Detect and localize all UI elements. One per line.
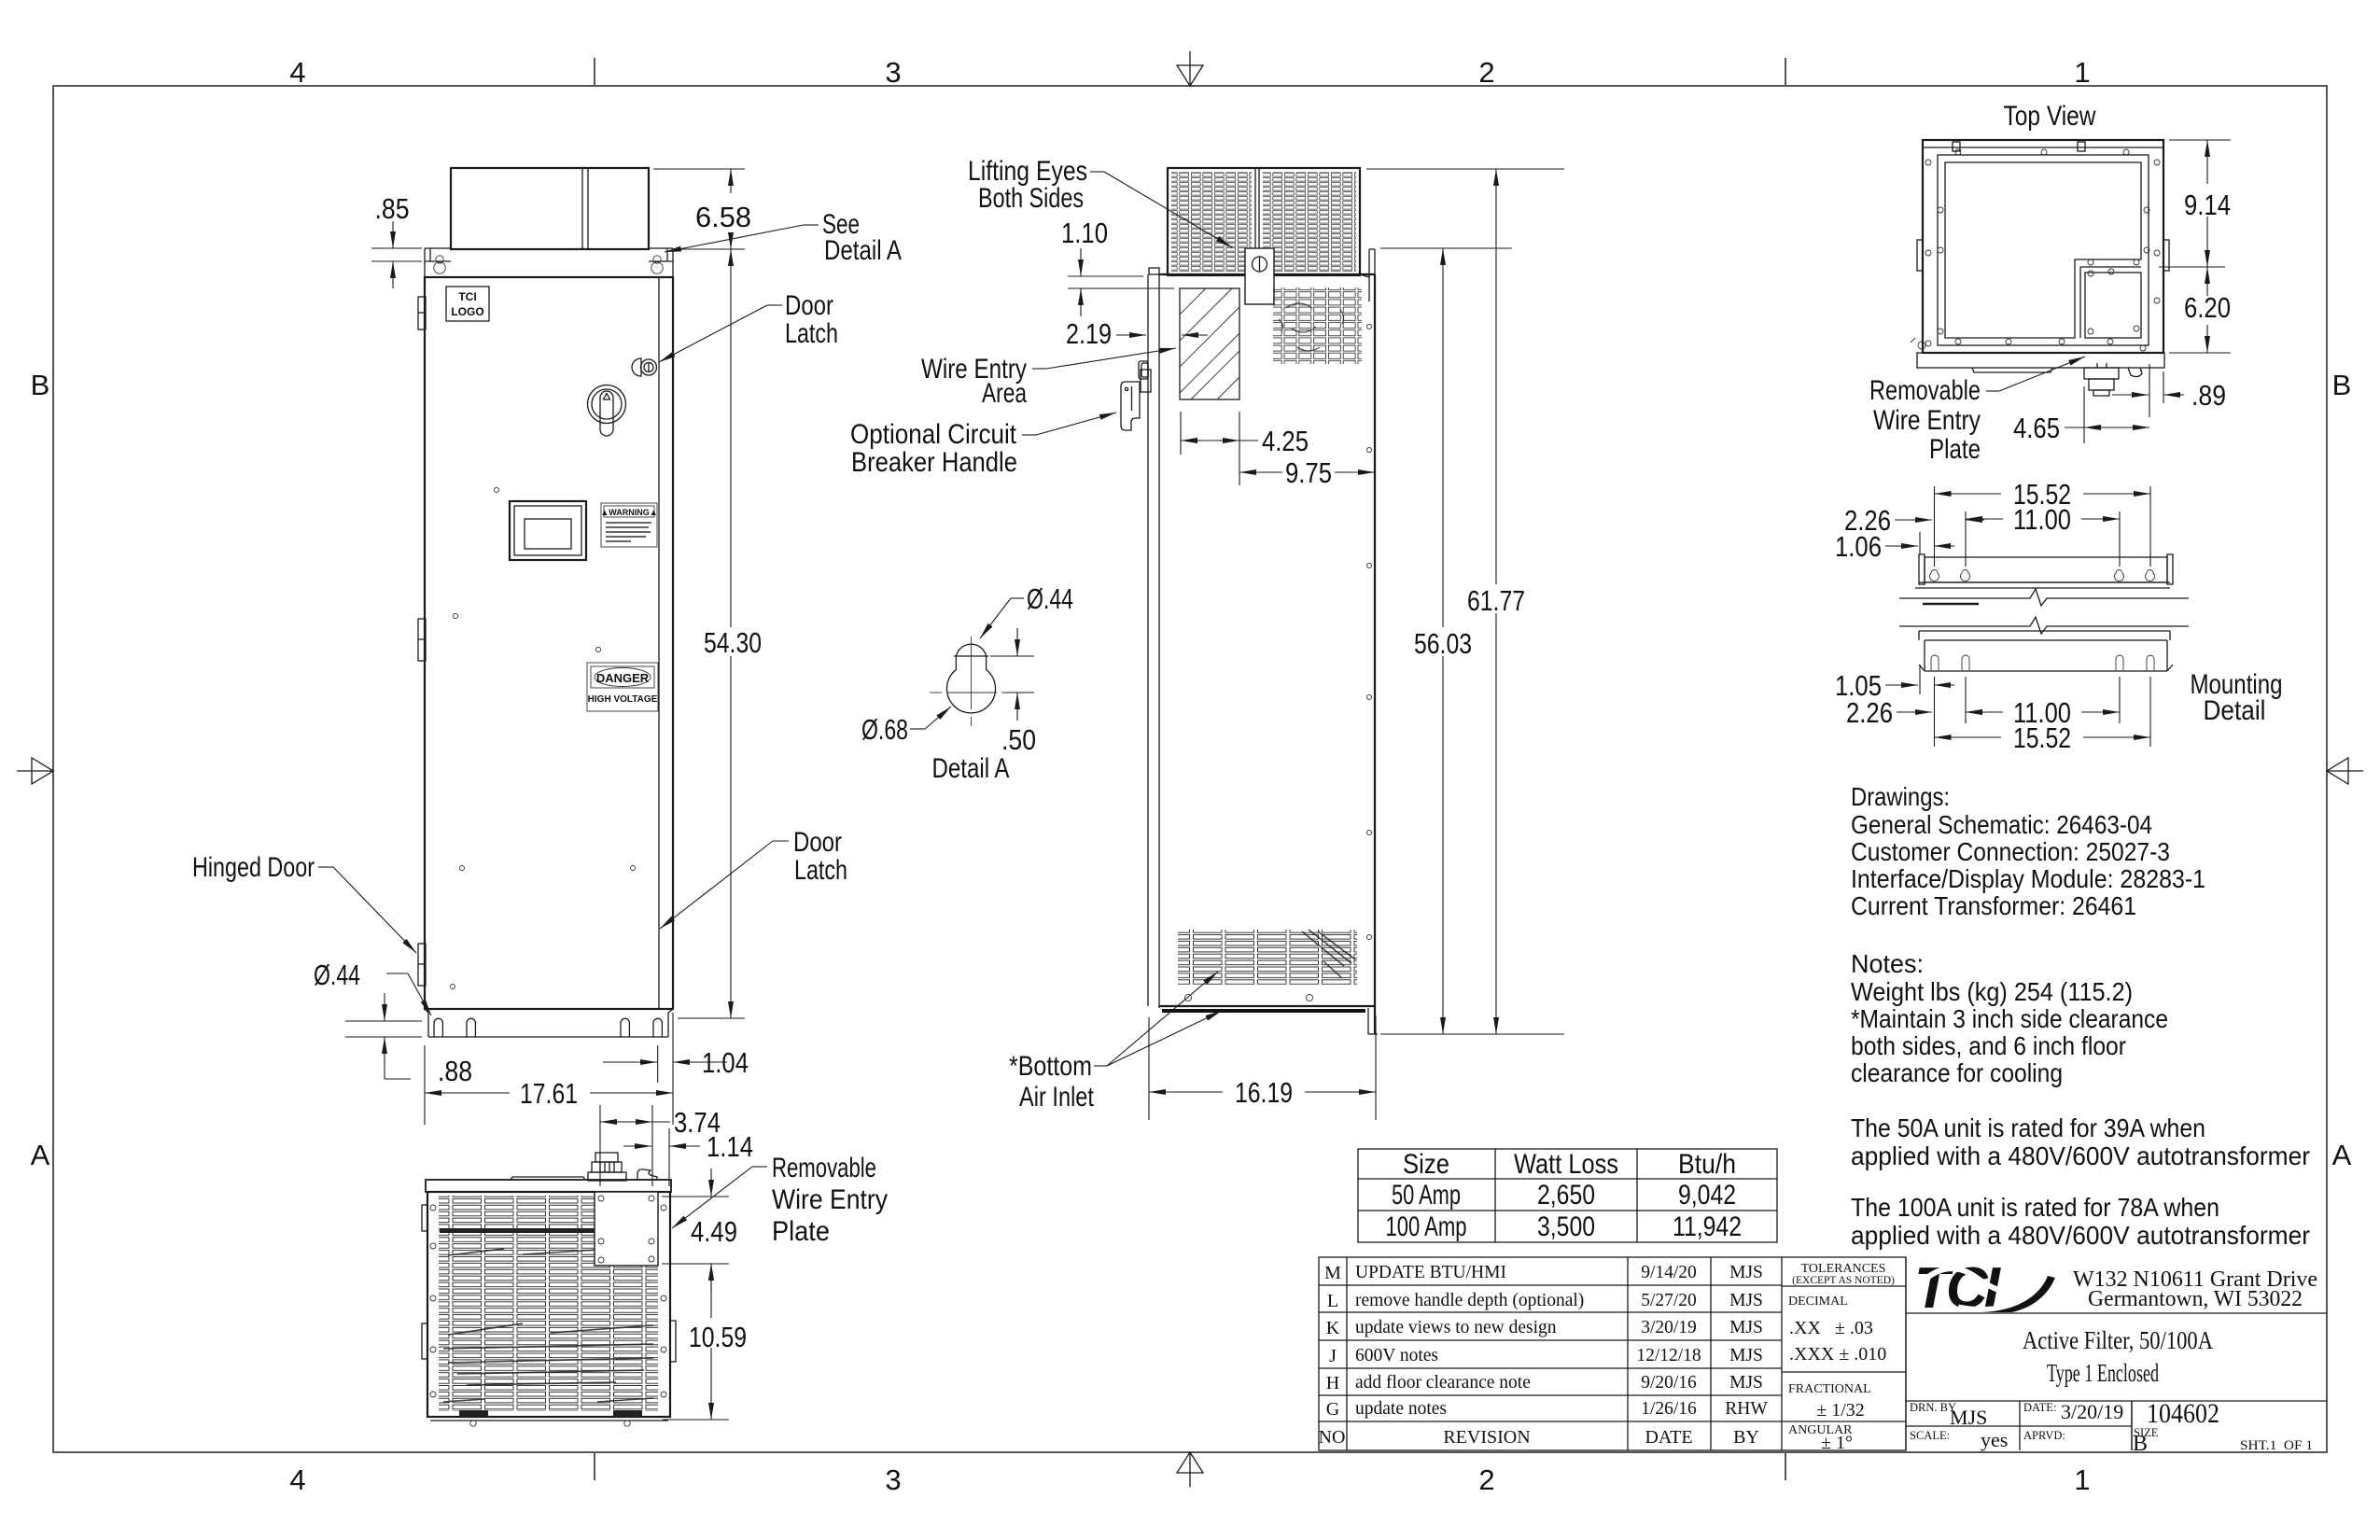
SECTION: front view	[418, 168, 673, 1037]
dim .88	[345, 993, 422, 1079]
bottom view base edge	[427, 1417, 670, 1421]
dim 15.52 lower	[1935, 677, 2151, 747]
plenum divider	[581, 168, 583, 249]
svg-text:3,500: 3,500	[1537, 1211, 1595, 1242]
svg-text:Door: Door	[793, 827, 842, 858]
svg-text:Customer Connection: 25027-3: Customer Connection: 25027-3	[1851, 837, 2170, 866]
top view latch detail bottom left	[1911, 338, 1925, 349]
svg-text:DANGER: DANGER	[596, 671, 650, 685]
bottom view foot pad left	[459, 1410, 488, 1426]
bottom view right hinge tab	[670, 1321, 676, 1362]
revision row L	[1327, 1291, 1763, 1311]
bottom view foot pad right	[613, 1410, 642, 1426]
svg-text:Optional Circuit: Optional Circuit	[850, 419, 1017, 450]
top view front corner clips	[1953, 142, 2085, 151]
revision table grid	[1319, 1257, 1906, 1450]
tolerances box	[1782, 1262, 1906, 1453]
dim 3.74	[600, 1105, 670, 1186]
side view top cap line	[1159, 273, 1375, 275]
svg-text:applied with a 480V/600V autot: applied with a 480V/600V autotransformer	[1851, 1141, 2310, 1170]
leader bottom air inlet	[1094, 972, 1222, 1066]
danger high voltage label	[587, 663, 658, 711]
SECTION: bottom view dimensions	[600, 1105, 888, 1420]
svg-text:Ø.44: Ø.44	[1027, 582, 1073, 615]
svg-text:9.14: 9.14	[2184, 189, 2231, 221]
svg-text:9/14/20: 9/14/20	[1641, 1263, 1697, 1282]
svg-text:Detail: Detail	[2204, 695, 2266, 726]
svg-text:Plate: Plate	[1929, 434, 1981, 465]
dim 1.06 upper	[1885, 532, 1954, 554]
SECTION: bottom view	[422, 1153, 676, 1426]
HMI display	[510, 501, 586, 560]
wire entry area hatched	[1180, 288, 1239, 399]
svg-text:600V notes: 600V notes	[1355, 1346, 1438, 1365]
svg-text:1: 1	[2074, 56, 2090, 89]
svg-text:5/27/20: 5/27/20	[1641, 1291, 1697, 1310]
dim 11.00 upper	[1966, 511, 2120, 567]
center flag bottom	[1177, 1452, 1203, 1487]
bottom grille diagonal shading	[1302, 930, 1355, 978]
svg-text:HIGH VOLTAGE: HIGH VOLTAGE	[588, 694, 658, 705]
bottom view lifting hook tab	[637, 1169, 657, 1181]
svg-text:NO: NO	[1319, 1427, 1346, 1448]
svg-text:104602: 104602	[2147, 1398, 2219, 1429]
revision row M	[1324, 1263, 1763, 1283]
top view door panel	[1945, 162, 2141, 338]
svg-text:B: B	[2332, 369, 2352, 401]
dim diameter .44 detail	[980, 598, 1024, 638]
svg-text:Notes:: Notes:	[1851, 949, 1924, 978]
dim .50	[990, 628, 1034, 721]
svg-text:50 Amp: 50 Amp	[1392, 1180, 1461, 1211]
keyhole slot left on flange	[434, 256, 445, 273]
svg-text:Removable: Removable	[772, 1153, 876, 1183]
side view rear edge	[1374, 274, 1376, 1008]
svg-text:Interface/Display Module: 2828: Interface/Display Module: 28283-1	[1851, 864, 2205, 893]
keyhole slot right on flange	[651, 256, 663, 273]
svg-text:UPDATE BTU/HMI: UPDATE BTU/HMI	[1355, 1263, 1506, 1282]
fan grille swirl shading	[1279, 303, 1344, 351]
bottom view conduit connector	[588, 1153, 626, 1181]
svg-text:3/20/19: 3/20/19	[2061, 1400, 2123, 1423]
svg-text:G: G	[1326, 1399, 1339, 1420]
svg-text:both sides, and 6 inch floor: both sides, and 6 inch floor	[1851, 1031, 2126, 1060]
dim .85	[371, 221, 422, 288]
top view right tab	[2163, 240, 2169, 271]
leader optional circuit breaker handle	[1022, 413, 1116, 435]
SECTION: top view dimensions	[1869, 140, 2231, 465]
side view bottom air inlet grille	[1178, 930, 1357, 985]
svg-text:FRACTIONAL: FRACTIONAL	[1788, 1382, 1871, 1396]
TCI logo	[1905, 1256, 2055, 1321]
dim 9.75	[1239, 471, 1375, 473]
bottom view left hinge tab	[422, 1205, 427, 1231]
dim 61.77	[1366, 169, 1564, 1034]
dim 4.49	[662, 1169, 729, 1292]
dim 10.59	[663, 1264, 729, 1420]
svg-text:± 1/32: ± 1/32	[1816, 1400, 1865, 1421]
exhaust grille mesh left	[1171, 172, 1252, 272]
svg-text:remove handle depth (optional): remove handle depth (optional)	[1355, 1291, 1584, 1310]
enclosure body front	[425, 277, 673, 1009]
svg-text:update views to new design: update views to new design	[1355, 1318, 1557, 1337]
svg-text:4: 4	[289, 1463, 305, 1496]
svg-text:.88: .88	[438, 1055, 472, 1087]
svg-text:DECIMAL: DECIMAL	[1788, 1295, 1848, 1309]
center flag right	[2327, 758, 2363, 784]
dim 6.58	[653, 169, 745, 249]
door edge line right	[658, 277, 660, 1009]
svg-text:1/26/16: 1/26/16	[1641, 1399, 1697, 1419]
leader door latch bottom	[660, 841, 789, 929]
svg-text:A: A	[31, 1139, 50, 1171]
svg-text:J: J	[1329, 1346, 1337, 1366]
svg-text:Latch: Latch	[794, 855, 847, 886]
dim 2.26 lower	[1897, 677, 1984, 747]
svg-text:update notes: update notes	[1355, 1399, 1447, 1419]
svg-text:4.25: 4.25	[1262, 425, 1309, 457]
svg-text:2: 2	[1478, 56, 1494, 89]
svg-text:MJS: MJS	[1950, 1406, 1987, 1429]
svg-text:SCALE:: SCALE:	[1910, 1429, 1950, 1442]
svg-text:.XX ± .03: .XX ± .03	[1789, 1318, 1873, 1338]
svg-text:9.75: 9.75	[1285, 456, 1332, 489]
upper keyhole slots	[1930, 570, 2155, 581]
svg-text:54.30: 54.30	[704, 626, 762, 659]
svg-text:applied with a 480V/600V autot: applied with a 480V/600V autotransformer	[1851, 1221, 2310, 1250]
svg-text:DATE:: DATE:	[2023, 1401, 2056, 1414]
svg-text:4: 4	[289, 56, 305, 89]
svg-text:L: L	[1327, 1291, 1338, 1311]
leader removable wire entry plate (top view)	[1986, 357, 2085, 391]
dim 1.04	[603, 1045, 727, 1083]
door latch side tab	[1139, 361, 1148, 379]
svg-text:10.59: 10.59	[689, 1321, 747, 1353]
leader wire entry area	[1032, 348, 1176, 369]
svg-text:1: 1	[2074, 1463, 2090, 1496]
SECTION: revision table and title block	[1319, 1256, 2327, 1456]
svg-text:RHW: RHW	[1725, 1399, 1768, 1419]
top view screws	[1925, 149, 2160, 351]
door latch top	[632, 358, 656, 376]
zone tick bottom 2/1	[1785, 1452, 1786, 1480]
top view outer inner line	[1923, 147, 2163, 148]
svg-text:DATE: DATE	[1645, 1427, 1692, 1448]
svg-text:.50: .50	[1001, 723, 1036, 756]
svg-text:17.61: 17.61	[520, 1077, 578, 1110]
svg-text:SHT.1 OF 1: SHT.1 OF 1	[2240, 1438, 2313, 1453]
svg-text:2.26: 2.26	[1846, 696, 1893, 729]
svg-text:3/20/19: 3/20/19	[1641, 1318, 1697, 1337]
svg-text:1.14: 1.14	[707, 1130, 753, 1163]
top view conduit	[2084, 363, 2119, 396]
svg-text:1.04: 1.04	[702, 1046, 749, 1079]
svg-text:The 100A unit is rated for 78A: The 100A unit is rated for 78A when	[1851, 1193, 2219, 1222]
dim 11.00 lower	[1966, 677, 2120, 723]
svg-text:Active Filter, 50/100A: Active Filter, 50/100A	[2023, 1326, 2213, 1354]
svg-text:Btu/h: Btu/h	[1678, 1149, 1736, 1180]
dim diameter .68 detail	[910, 707, 951, 729]
svg-text:Plate: Plate	[772, 1216, 830, 1247]
svg-text:Wire Entry: Wire Entry	[772, 1184, 888, 1215]
top view door handle bump	[1972, 368, 2052, 372]
dim 1.10	[1068, 248, 1174, 316]
revision header row	[1319, 1427, 1759, 1448]
svg-text:MJS: MJS	[1729, 1318, 1763, 1337]
disconnect switch handle	[588, 385, 626, 437]
dim 16.19	[1149, 1015, 1376, 1120]
dim 17.61	[425, 1013, 673, 1125]
center flag top	[1177, 51, 1203, 86]
svg-text:2: 2	[1478, 1463, 1494, 1496]
bottom view top cap	[426, 1177, 671, 1192]
SECTION: mounting detail	[1899, 554, 2283, 726]
mounting detail lower bar with break	[1899, 617, 2189, 671]
bottom view body	[427, 1192, 670, 1417]
svg-text:LOGO: LOGO	[451, 305, 483, 318]
leader hinged door	[318, 867, 416, 953]
detail A centerlines	[930, 637, 1012, 726]
svg-text:9/20/16: 9/20/16	[1641, 1373, 1697, 1393]
svg-text:3: 3	[885, 1463, 901, 1496]
SECTION: side view dimensions	[850, 156, 1564, 1120]
SECTION: top view	[1911, 101, 2169, 396]
top view L notch	[2080, 267, 2141, 338]
zone tick bottom 4/3	[594, 1452, 595, 1480]
svg-text:4.65: 4.65	[2013, 412, 2060, 444]
zone tick top 2/1	[1785, 58, 1786, 86]
svg-text:*Bottom: *Bottom	[1009, 1051, 1092, 1082]
rear fan grille (side view top)	[1273, 287, 1362, 364]
exhaust grille divider	[1255, 168, 1259, 275]
svg-text:Top View: Top View	[2004, 101, 2096, 132]
svg-text:B: B	[31, 369, 50, 401]
svg-text:clearance for cooling: clearance for cooling	[1851, 1058, 2063, 1087]
exhaust grille mesh right	[1263, 172, 1356, 272]
leader lifting eyes both sides	[1090, 172, 1232, 247]
base flange front	[425, 1009, 673, 1037]
dim 54.30	[678, 249, 745, 1018]
svg-text:± 1°: ± 1°	[1821, 1433, 1853, 1453]
svg-text:.89: .89	[2191, 379, 2226, 412]
svg-text:▲WARNING▲: ▲WARNING▲	[600, 508, 657, 517]
front view top plenum box	[451, 168, 649, 249]
top view outer flange	[1923, 140, 2163, 353]
grille fan shading	[443, 1249, 653, 1402]
side view exhaust grille box	[1168, 168, 1360, 275]
top view inner frame	[1938, 155, 2149, 345]
svg-text:3: 3	[885, 56, 901, 89]
svg-text:B: B	[2133, 1432, 2148, 1456]
svg-text:Germantown, WI 53022: Germantown, WI 53022	[2088, 1287, 2303, 1311]
foot slot 4	[653, 1018, 662, 1037]
svg-text:Area: Area	[982, 378, 1027, 409]
dim 2.26 upper	[1895, 519, 1984, 521]
foot slot 1	[434, 1018, 442, 1037]
svg-text:Ø.44: Ø.44	[314, 959, 360, 991]
svg-text:*Maintain 3 inch side clearanc: *Maintain 3 inch side clearance	[1851, 1004, 2168, 1033]
svg-text:Ø.68: Ø.68	[861, 713, 908, 746]
SECTION: detail A	[861, 582, 1073, 784]
svg-text:.XXX ± .010: .XXX ± .010	[1789, 1344, 1886, 1365]
revision row K	[1326, 1318, 1763, 1338]
dim 1.14	[623, 1128, 700, 1186]
svg-text:15.52: 15.52	[2013, 721, 2071, 754]
svg-text:Breaker Handle: Breaker Handle	[851, 447, 1017, 478]
bottom view air inlet grille	[439, 1196, 658, 1411]
side view bottom edge	[1159, 1006, 1378, 1034]
foot slot 2	[467, 1018, 475, 1037]
hinge middle	[418, 619, 426, 661]
removable wire entry plate (bottom view)	[595, 1192, 658, 1266]
svg-text:Removable: Removable	[1869, 375, 1981, 406]
side view right panel dots	[1366, 324, 1371, 939]
svg-text:100 Amp: 100 Amp	[1386, 1211, 1467, 1242]
leader door latch top	[659, 305, 782, 362]
svg-text:TCI: TCI	[458, 290, 476, 303]
svg-text:yes: yes	[1981, 1428, 2008, 1451]
leader diameter .44 front	[386, 973, 431, 1015]
svg-text:General Schematic: 26463-04: General Schematic: 26463-04	[1851, 810, 2152, 839]
frame screws bottom view	[430, 1205, 666, 1397]
dim .89	[2112, 364, 2184, 417]
svg-text:2.19: 2.19	[1066, 317, 1112, 350]
svg-text:Door: Door	[785, 290, 833, 321]
svg-text:MJS: MJS	[1729, 1346, 1763, 1365]
svg-text:TOLERANCES: TOLERANCES	[1801, 1262, 1886, 1276]
svg-text:Hinged Door: Hinged Door	[192, 852, 315, 883]
plate screws	[598, 1196, 654, 1263]
door screw dots	[451, 488, 636, 989]
revision row H	[1326, 1373, 1763, 1393]
center flag left	[17, 758, 53, 784]
dim 1.05 lower	[1885, 665, 1954, 694]
top view rear hook	[2128, 368, 2142, 377]
svg-text:MJS: MJS	[1729, 1291, 1763, 1310]
warning label	[600, 503, 657, 547]
svg-text:APRVD:: APRVD:	[2023, 1429, 2065, 1442]
svg-text:6.58: 6.58	[695, 201, 751, 233]
svg-text:MJS: MJS	[1729, 1373, 1763, 1393]
grille dark band	[440, 1228, 657, 1233]
svg-text:M: M	[1324, 1263, 1341, 1283]
svg-text:4.49: 4.49	[691, 1215, 737, 1248]
dim 15.52 upper	[1935, 486, 2151, 567]
dim 4.25	[1181, 412, 1258, 485]
TCI LOGO placard	[446, 287, 489, 321]
revision row G	[1326, 1399, 1769, 1420]
leader removable wire entry plate (bottom view)	[672, 1167, 767, 1228]
SECTION: size table	[1358, 1149, 1777, 1242]
upper detail cap strip with break	[1899, 582, 2189, 606]
svg-text:REVISION: REVISION	[1443, 1427, 1530, 1448]
svg-text:The 50A unit is rated for 39A: The 50A unit is rated for 39A when	[1851, 1113, 2205, 1142]
svg-text:.85: .85	[375, 192, 410, 225]
svg-text:H: H	[1326, 1373, 1339, 1393]
svg-text:11,942: 11,942	[1673, 1211, 1742, 1242]
svg-text:1.10: 1.10	[1061, 217, 1108, 249]
dim 56.03	[1380, 248, 1512, 1034]
top view left tab	[1917, 240, 1923, 271]
SECTION: side view	[1121, 168, 1378, 1034]
svg-text:12/12/18: 12/12/18	[1636, 1346, 1701, 1365]
lifting eye plate	[1245, 248, 1274, 304]
detail A keyhole outline	[947, 644, 996, 713]
svg-text:Detail A: Detail A	[824, 235, 902, 266]
mounting detail upper flange bar	[1919, 554, 2173, 584]
dim 4.65	[2065, 386, 2149, 443]
foot slot 3	[621, 1018, 629, 1037]
optional circuit breaker handle	[1121, 370, 1151, 430]
top view bottom flange strip	[1917, 353, 2164, 368]
svg-text:Current Transformer: 26461: Current Transformer: 26461	[1851, 891, 2136, 920]
svg-text:61.77: 61.77	[1467, 584, 1525, 617]
svg-text:9,042: 9,042	[1678, 1180, 1736, 1211]
svg-text:BY: BY	[1733, 1427, 1759, 1448]
SECTION: mounting detail dimensions	[1835, 478, 2150, 754]
rear top tab	[1360, 249, 1375, 301]
dim 6.20	[2169, 267, 2231, 353]
svg-text:(EXCEPT AS NOTED): (EXCEPT AS NOTED)	[1792, 1275, 1895, 1286]
dim 2.19	[1116, 334, 1208, 336]
svg-text:Weight lbs (kg) 254 (115.2): Weight lbs (kg) 254 (115.2)	[1851, 977, 2133, 1006]
top mounting flange	[425, 248, 673, 277]
hinge top	[418, 297, 426, 329]
svg-text:Air Inlet: Air Inlet	[1019, 1082, 1095, 1113]
size table grid	[1358, 1149, 1777, 1242]
side view door front edge	[1148, 268, 1159, 1008]
svg-text:Detail A: Detail A	[932, 753, 1010, 784]
svg-text:MJS: MJS	[1729, 1263, 1763, 1282]
svg-text:Type 1 Enclosed: Type 1 Enclosed	[2047, 1359, 2159, 1387]
lower foot slots	[1931, 655, 2154, 671]
svg-text:1.06: 1.06	[1835, 530, 1882, 563]
dim 9.14	[2159, 140, 2231, 267]
svg-text:Latch: Latch	[785, 318, 838, 349]
svg-text:K: K	[1326, 1318, 1340, 1338]
top view wire entry box	[2085, 273, 2141, 338]
SECTION: front view dimensions	[192, 169, 902, 1125]
side view bottom screw holes	[1184, 994, 1312, 1001]
svg-text:A: A	[2332, 1139, 2352, 1171]
svg-text:Size: Size	[1403, 1149, 1449, 1180]
svg-text:Watt Loss: Watt Loss	[1514, 1149, 1618, 1180]
svg-text:Wire Entry: Wire Entry	[1873, 405, 1981, 436]
svg-text:add floor clearance note: add floor clearance note	[1355, 1373, 1531, 1393]
svg-text:16.19: 16.19	[1235, 1076, 1293, 1109]
zone tick top 4/3	[594, 58, 595, 86]
SECTION: text blocks	[1851, 782, 2310, 1250]
leader see detail A	[665, 225, 819, 252]
svg-text:56.03: 56.03	[1414, 627, 1472, 660]
hinge bottom	[418, 944, 426, 986]
revision row J	[1329, 1346, 1763, 1366]
bottom view left hinge tab lower	[422, 1323, 427, 1359]
svg-text:2,650: 2,650	[1537, 1180, 1595, 1211]
svg-text:6.20: 6.20	[2184, 291, 2231, 324]
title block frame	[1906, 1257, 2327, 1450]
svg-text:Both Sides: Both Sides	[978, 183, 1084, 214]
svg-text:11.00: 11.00	[2013, 503, 2071, 536]
svg-text:Drawings:: Drawings:	[1851, 782, 1950, 811]
